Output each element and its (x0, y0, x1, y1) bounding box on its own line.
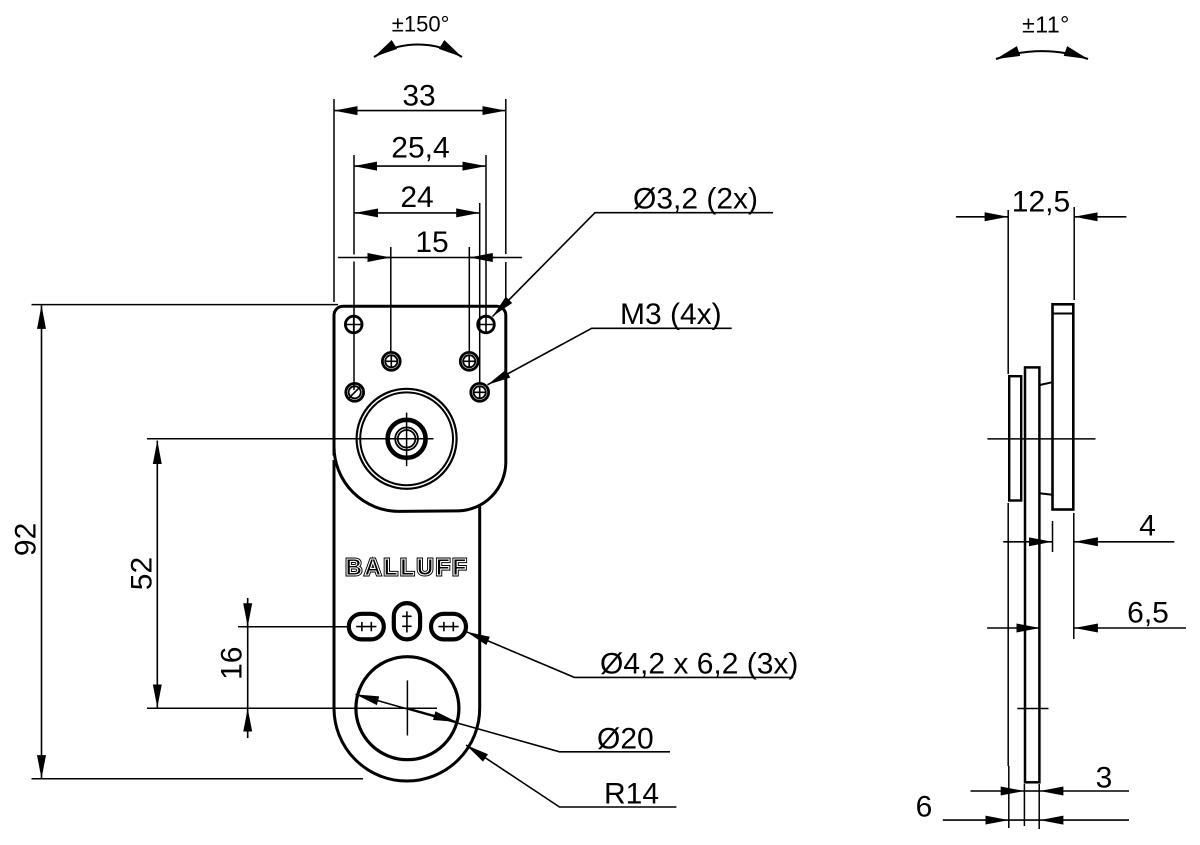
extension line right 15 (468, 247, 470, 352)
svg-text:±150°: ±150° (392, 12, 450, 37)
shaft vertical centerline (406, 413, 408, 467)
slot 4,2x6,2 right (431, 614, 466, 640)
leader M3 to lower-right hole (488, 328, 732, 385)
hole M3 upper-right (460, 352, 478, 370)
dimension line 15 with outside arrows (338, 257, 522, 259)
dimension line 33 (334, 110, 506, 112)
hole M3 upper-left (382, 352, 400, 370)
extension line 16 top to slot (238, 626, 349, 628)
dimension line 6 outside arrows (943, 819, 1129, 821)
shaft outer flange circle (357, 389, 457, 489)
rotation arc 11deg (996, 51, 1088, 59)
svg-text:3: 3 (1096, 762, 1113, 795)
dimension line 52 (156, 441, 158, 708)
extension line 92 top (32, 304, 339, 306)
dimension line 6,5 outside arrows (987, 627, 1186, 629)
svg-text:R14: R14 (604, 778, 659, 811)
svg-text:Ø3,2 (2x): Ø3,2 (2x) (633, 183, 758, 216)
shaft thick ring (388, 420, 426, 458)
dimension line 16 with outside arrows (247, 598, 249, 738)
BALLUFF logo (345, 554, 468, 580)
shaft bore inner circle (398, 430, 416, 448)
extension line 12,5 and 6 left (1007, 210, 1009, 374)
shaft outer flange inner circle (360, 392, 453, 485)
svg-text:±11°: ±11° (1022, 12, 1070, 38)
slot 4,2x6,2 left (349, 614, 384, 640)
svg-text:16: 16 (215, 647, 248, 680)
svg-text:6: 6 (916, 791, 933, 824)
d20 second arrowhead (407, 708, 456, 722)
extension line 4 and 6,5 right (1073, 513, 1075, 639)
leader R14 to bottom arc (466, 745, 676, 807)
hole 3,2 top-right (477, 315, 496, 334)
extension line left 15 (390, 247, 392, 352)
dimension line 4 outside arrows (1003, 541, 1174, 543)
front view head plate outline 33mm wide (334, 306, 506, 511)
side view upper joint line (1039, 382, 1052, 385)
svg-text:25,4: 25,4 (391, 132, 449, 165)
side view lower joint line (1039, 493, 1052, 495)
svg-text:4: 4 (1139, 510, 1156, 543)
svg-text:52: 52 (126, 557, 159, 590)
slot 4,2x6,2 middle vertical (394, 603, 420, 639)
svg-text:24: 24 (400, 181, 433, 214)
svg-text:6,5: 6,5 (1127, 597, 1169, 630)
side view bracket bar 4mm (1053, 304, 1074, 509)
rotation arc 150deg (374, 45, 462, 57)
side view sensor hub bar (1009, 376, 1021, 500)
svg-text:12,5: 12,5 (1012, 186, 1070, 219)
extension line left edge 33 (333, 99, 335, 302)
extension line 6 left bottom (1008, 766, 1010, 828)
circle d20 vertical centerline (406, 680, 408, 735)
extension line 12,5 right (1073, 207, 1075, 300)
side view d20 centerline tick (1017, 708, 1048, 710)
extension line 52 bottom / d20 horizontal centerline (147, 707, 437, 709)
extension line 3 and 6 right (1038, 784, 1040, 829)
svg-text:15: 15 (415, 226, 448, 259)
hole M3 lower-right (471, 383, 489, 401)
hole M3 lower-left (346, 383, 364, 401)
extension line left 25,4 and 24 through holes (353, 155, 355, 255)
hole 3,2 top-left (344, 315, 363, 334)
extension line 92 bottom (32, 778, 364, 780)
extension line right edge 33 (505, 99, 507, 254)
extension line right 25,4 (485, 155, 487, 316)
side view bracket cap line (1053, 313, 1074, 315)
leader d3,2 to top-right hole (493, 213, 774, 317)
extension line right 24 (479, 203, 481, 383)
dimension line 92 (41, 305, 43, 778)
side view main plate 3mm (1025, 367, 1039, 782)
svg-text:BALLUFF: BALLUFF (345, 554, 468, 580)
front view lower body outline with R14 bottom arc (334, 460, 480, 781)
leader d20 diameter line (356, 694, 671, 751)
dimension line 12,5 outside arrows (956, 216, 1127, 218)
side view shaft centerline (987, 438, 1095, 440)
dimension line 24 (355, 212, 480, 214)
circle d20 (356, 657, 459, 760)
extension line 52 top / shaft horizontal centerline (147, 438, 434, 440)
extension line 3 left (1023, 784, 1025, 826)
svg-text:33: 33 (402, 79, 435, 112)
svg-text:M3 (4x): M3 (4x) (620, 298, 722, 331)
shaft bore circle (395, 427, 418, 450)
dimension line 3 outside arrows (971, 790, 1130, 792)
svg-text:Ø20: Ø20 (597, 723, 654, 756)
dimension line 25,4 (354, 165, 486, 167)
leader d4,2x6,2 to right slot (467, 632, 794, 678)
svg-text:Ø4,2 x 6,2 (3x): Ø4,2 x 6,2 (3x) (600, 648, 798, 681)
svg-text:92: 92 (10, 523, 43, 556)
side view tick at bracket face (1052, 521, 1054, 552)
